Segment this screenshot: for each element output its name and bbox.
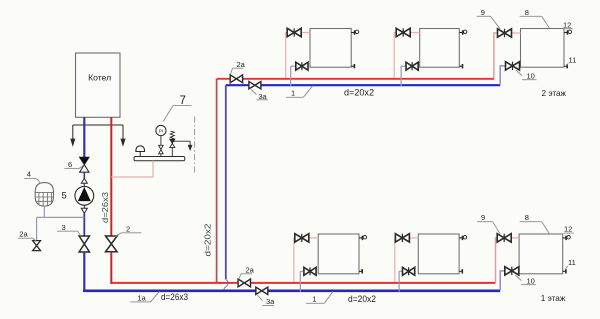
pipe: supply (red) to bottom main: [110, 252, 112, 284]
valve 10 (floor 2): [506, 62, 520, 70]
label 5: [62, 190, 67, 201]
radiator R3 floor 1 air vent & plug: [563, 236, 571, 274]
pipe: R1-f2 return branch (gray-blue): [291, 66, 296, 86]
radiator valve R2-f2 inlet: [396, 28, 410, 36]
radiator R2 floor 1: [418, 234, 459, 274]
pipe: R3-f2 supply tail (pink): [494, 33, 521, 78]
svg-text:d=20х2: d=20х2: [344, 88, 374, 98]
svg-text:9: 9: [481, 8, 485, 17]
pipe: bottom main return (blue): [84, 290, 500, 291]
pipe: R2-f2 return branch (gray-blue): [401, 66, 406, 86]
svg-text:1а: 1а: [138, 294, 147, 303]
pipe: return (blue) to bottom main: [83, 252, 85, 290]
radiator R1 floor 2 air vent & plug: [351, 30, 359, 68]
radiator valve R1-f1 outlet: [304, 267, 316, 275]
value label d=20x2 (floor 2): [344, 88, 374, 98]
radiator R3 floor 2: [521, 29, 565, 68]
svg-text:3а: 3а: [266, 297, 275, 306]
pipe: riser return (blue): [225, 85, 227, 279]
pipe: riser return hop over red main: [224, 280, 228, 291]
pipe: R1-f1 return branch (gray-blue): [300, 271, 304, 292]
radiator valve R1-f2 inlet: [287, 28, 301, 36]
pipe: floor-2 main return (blue): [226, 84, 500, 86]
label 3: [57, 223, 81, 236]
label 9 (floor 1): [477, 213, 500, 234]
label 6: [64, 160, 83, 169]
label 10 (floor 1): [515, 275, 536, 286]
label 8 (floor 1): [520, 213, 550, 234]
label 11 (floor 2): [566, 56, 576, 67]
value label d=20x2 (floor 1): [348, 294, 376, 304]
pipe: R3-f1 supply tail (pink): [496, 238, 520, 282]
svg-text:4: 4: [27, 170, 31, 179]
svg-text:d=26х3: d=26х3: [161, 292, 188, 302]
valve 3a (floor 2): [249, 82, 261, 89]
pipe: expansion tank stem: [43, 206, 45, 218]
pipe: boiler return (blue) upper segment: [83, 117, 85, 157]
label 2: [115, 224, 142, 237]
valve 2a (floor 1): [238, 279, 250, 287]
radiator valve R2-f1 inlet: [395, 234, 409, 242]
svg-text:PI: PI: [159, 129, 163, 134]
pipe: pump to valve 3 (blue): [83, 213, 85, 236]
radiator valve R1-f2 outlet: [296, 62, 308, 70]
svg-text:2а: 2а: [237, 60, 246, 69]
svg-text:12: 12: [564, 225, 572, 234]
label 8 (floor 2): [520, 8, 550, 29]
safety valve with spring: [170, 131, 192, 157]
svg-text:6: 6: [68, 160, 72, 169]
label: 1 этаж: [541, 294, 566, 303]
pipe: R3-f1 return tail (lavender): [500, 271, 519, 290]
label 12 (floor 1): [564, 225, 574, 234]
svg-text:2: 2: [126, 224, 130, 233]
radiator R2 floor 1 air vent & plug: [459, 236, 467, 274]
label 1a: [130, 291, 159, 302]
radiator R3 floor 2 air vent & plug: [564, 30, 572, 68]
svg-text:2 этаж: 2 этаж: [542, 89, 567, 98]
svg-text:d=20х2: d=20х2: [348, 294, 376, 304]
pipe: floor-2 main supply (red): [217, 78, 494, 80]
svg-text:1: 1: [312, 295, 316, 304]
valve 9 (floor 1): [497, 234, 511, 242]
label 4: [24, 170, 39, 183]
svg-text:12: 12: [563, 20, 571, 29]
expansion tank 4: [34, 183, 55, 207]
svg-text:d=26х3: d=26х3: [101, 191, 110, 223]
value label d=20x2 (riser): [204, 223, 213, 257]
valve 2a (floor 2): [230, 75, 242, 83]
label: 2 этаж: [542, 89, 567, 98]
svg-text:5: 5: [62, 190, 67, 201]
svg-text:Котел: Котел: [88, 74, 111, 83]
svg-text:1 этаж: 1 этаж: [541, 294, 566, 303]
radiator R1 floor 1: [318, 234, 359, 274]
svg-text:9: 9: [481, 213, 485, 222]
pipe: boiler supply (red) down to valve 2: [110, 117, 112, 236]
valve 3a (floor 1): [256, 287, 268, 294]
pressure gauge PI: [156, 125, 166, 156]
svg-text:2а: 2а: [19, 230, 28, 239]
pump outlet cone: [81, 205, 87, 213]
drain valve 2a (left): [33, 241, 41, 251]
svg-text:8: 8: [525, 8, 529, 17]
radiator valve R2-f1 outlet: [403, 267, 415, 275]
svg-text:11: 11: [569, 56, 577, 65]
label 2a (left): [18, 230, 36, 241]
label 3a (floor 1): [258, 295, 276, 306]
svg-text:11: 11: [568, 258, 576, 267]
radiator R3 floor 1: [519, 234, 563, 274]
system boundary (dash-dot): [194, 117, 196, 175]
pump 5 (circle with filled rotor triangle): [75, 186, 94, 205]
svg-text:8: 8: [525, 213, 529, 222]
label 11 (floor 1): [565, 258, 576, 270]
valve 3: [79, 236, 89, 252]
label 2a (floor 2): [230, 60, 245, 74]
label 1 (floor 2): [286, 86, 313, 98]
svg-text:10: 10: [527, 277, 535, 286]
value label d=26x3 (bottom): [161, 292, 188, 302]
svg-text:2а: 2а: [246, 265, 255, 274]
pipe: safety group connection (pink): [111, 161, 153, 177]
svg-text:10: 10: [527, 72, 535, 81]
radiator valve R2-f2 outlet: [406, 62, 418, 70]
svg-text:1: 1: [291, 89, 295, 98]
radiator R2 floor 2: [420, 29, 460, 68]
pipe: tank branch to return line: [37, 217, 85, 240]
value label d=26x3 (riser): [101, 191, 110, 223]
label 9 (floor 2): [477, 8, 500, 29]
safety group manifold: [134, 157, 185, 161]
check valve 6: [80, 157, 89, 178]
pipe: R2-f1 return branch (gray-blue): [399, 271, 402, 292]
boiler (Котел): [76, 53, 121, 117]
label 1 (floor 1): [306, 292, 333, 304]
label 2a (floor 1): [239, 265, 255, 279]
radiator valve R1-f1 inlet: [295, 234, 309, 242]
svg-text:3: 3: [62, 223, 66, 232]
pipe: R3-f2 return tail (lavender): [500, 66, 520, 84]
label 3a (floor 2): [251, 90, 268, 102]
radiator R1 floor 1 air vent & plug: [359, 236, 367, 274]
svg-text:d=20х2: d=20х2: [204, 223, 213, 257]
pipe: R1-f2 supply branch (pink): [286, 33, 310, 78]
valve 10 (floor 1): [505, 267, 519, 275]
pipe: riser supply (red): [216, 79, 218, 283]
boiler flow direction arrows: [71, 125, 125, 146]
radiator R1 floor 2: [310, 29, 351, 68]
label 7: [163, 95, 191, 121]
label 10 (floor 2): [516, 70, 537, 81]
valve 9 (floor 2): [498, 29, 512, 37]
pipe: R2-f2 supply branch (pink): [394, 33, 420, 78]
radiator R2 floor 2 air vent & plug: [459, 30, 467, 68]
pipe: R1-f1 supply branch (pink): [294, 238, 318, 282]
pipe: R2-f1 supply branch (pink): [395, 238, 419, 282]
label 12 (floor 2): [563, 20, 573, 29]
pipe: bottom main supply (red): [111, 282, 495, 284]
pump inlet cone: [81, 178, 87, 186]
air vent on manifold: [136, 146, 145, 157]
valve 2: [106, 236, 118, 252]
